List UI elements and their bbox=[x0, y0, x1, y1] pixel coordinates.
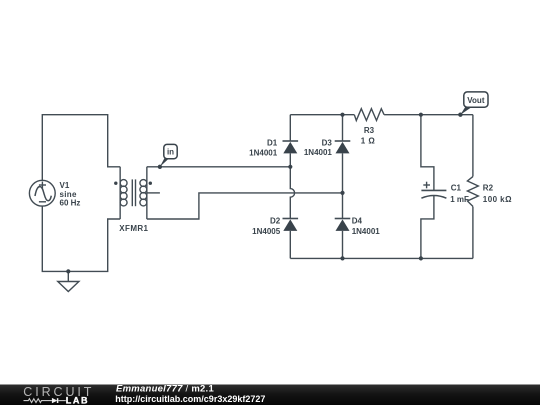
resistor R2 bbox=[467, 177, 478, 207]
svg-text:1N4005: 1N4005 bbox=[252, 227, 281, 236]
wire D1 column bbox=[289, 115, 291, 141]
svg-text:Emmanuel777 / m2.1: Emmanuel777 / m2.1 bbox=[116, 383, 214, 394]
wire D4 column bbox=[342, 193, 344, 219]
junction dot top D3 bbox=[340, 113, 344, 117]
svg-text:D3: D3 bbox=[322, 138, 333, 147]
bottom brand bar bbox=[0, 383, 540, 405]
svg-text:1 Ω: 1 Ω bbox=[361, 137, 376, 146]
junction dot in flag bbox=[158, 165, 162, 169]
wire secondary bottom to bridge bbox=[147, 193, 343, 219]
V1 sine wave bbox=[35, 187, 51, 201]
phase dot right bbox=[149, 182, 152, 185]
junction dot top C1 bbox=[419, 113, 423, 117]
svg-text:D1: D1 bbox=[267, 138, 278, 147]
capacitor C1 plus sign bbox=[423, 184, 430, 186]
diode D2 bbox=[283, 219, 297, 231]
diode D4 bbox=[336, 219, 350, 231]
svg-text:Vout: Vout bbox=[467, 96, 485, 105]
wire top rail bbox=[290, 114, 354, 116]
svg-text:D4: D4 bbox=[352, 216, 363, 225]
flag Vout bbox=[460, 92, 488, 115]
diode D3 cathode bar bbox=[335, 140, 351, 142]
transformer XFMR1 left coil bbox=[119, 167, 121, 219]
transformer core bbox=[131, 179, 133, 206]
svg-text:XFMR1: XFMR1 bbox=[119, 224, 148, 233]
svg-text:V1: V1 bbox=[60, 181, 70, 190]
svg-text:R3: R3 bbox=[364, 126, 375, 135]
svg-text:60 Hz: 60 Hz bbox=[60, 199, 81, 208]
junction dot bottom C1 bbox=[419, 256, 423, 260]
svg-text:100 kΩ: 100 kΩ bbox=[483, 195, 512, 204]
svg-text:in: in bbox=[167, 148, 174, 157]
capacitor C1 plates bbox=[421, 189, 446, 191]
diode D1 cathode bar bbox=[283, 140, 299, 142]
svg-text:C1: C1 bbox=[451, 184, 462, 193]
wire V1 top loop bbox=[42, 115, 120, 181]
svg-text:1N4001: 1N4001 bbox=[249, 148, 278, 157]
transformer right coil bbox=[146, 167, 148, 219]
junction dot Vout bbox=[458, 113, 462, 117]
ground bbox=[67, 271, 69, 281]
logo schematic line: resistor + diode bbox=[24, 399, 52, 403]
wire C1 branch top bbox=[421, 115, 434, 191]
junction dot tap/D3 bbox=[340, 191, 344, 195]
wire D2 column with hop over tap wire bbox=[290, 167, 294, 219]
junction dot in/D1 bbox=[288, 165, 292, 169]
wire bottom rail bbox=[290, 257, 473, 259]
wire D3 column bbox=[342, 115, 344, 141]
diode D1 bbox=[283, 142, 297, 154]
svg-text:1 mF: 1 mF bbox=[450, 195, 469, 204]
svg-text:http://circuitlab.com/c9r3x29k: http://circuitlab.com/c9r3x29kf2727 bbox=[115, 394, 265, 404]
voltage source V1 circle bbox=[29, 180, 55, 206]
svg-text:1N4001: 1N4001 bbox=[304, 148, 333, 157]
svg-text:LAB: LAB bbox=[66, 396, 89, 405]
junction dot ground bbox=[66, 269, 70, 273]
junction dot bottom D4 bbox=[340, 256, 344, 260]
resistor R3 bbox=[354, 109, 384, 121]
wire R2 column bbox=[472, 115, 474, 177]
V1 minus bbox=[39, 201, 46, 203]
svg-text:D2: D2 bbox=[270, 216, 281, 225]
wire C1 branch bottom bbox=[421, 195, 434, 258]
flag in bbox=[160, 144, 177, 166]
diode D3 bbox=[336, 142, 350, 154]
svg-text:R2: R2 bbox=[483, 184, 494, 193]
diode D4 cathode bar bbox=[335, 218, 351, 220]
wire V1 bottom loop bbox=[42, 206, 120, 271]
phase dot left bbox=[114, 182, 117, 185]
wire center tap stub bbox=[147, 192, 160, 194]
diode D2 cathode bar bbox=[283, 218, 299, 220]
svg-text:1N4001: 1N4001 bbox=[352, 227, 381, 236]
V1 plus bbox=[39, 184, 46, 186]
wire in net bbox=[147, 166, 290, 168]
